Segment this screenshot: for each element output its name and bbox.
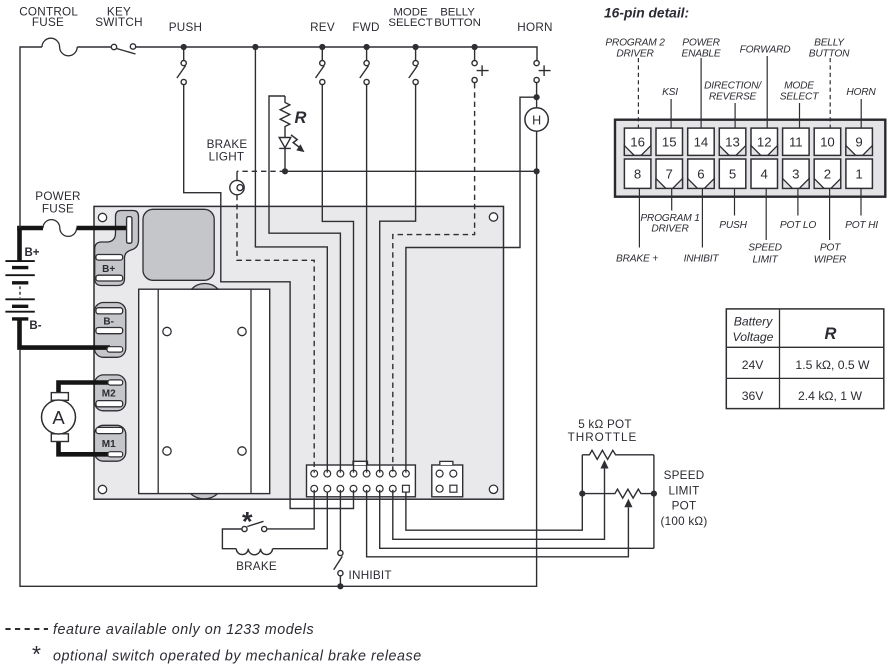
svg-text:BELLY: BELLY bbox=[814, 38, 845, 49]
pin 7 box bbox=[656, 159, 683, 188]
svg-text:INHIBIT: INHIBIT bbox=[684, 254, 720, 265]
svg-text:PUSH: PUSH bbox=[169, 21, 202, 34]
controller 1233 body bbox=[94, 206, 504, 499]
wire: brake switch to brake coil bbox=[222, 529, 242, 549]
svg-text:4: 4 bbox=[761, 167, 768, 182]
pin 5 box bbox=[719, 159, 746, 188]
svg-text:2.4 kΩ, 1 W: 2.4 kΩ, 1 W bbox=[798, 389, 862, 403]
svg-text:*: * bbox=[242, 507, 253, 537]
B+ stud slot over wire bbox=[127, 217, 132, 244]
connector pin labels (italic) bbox=[605, 38, 878, 266]
wire: pin 2 to throttle pot wiper bbox=[393, 468, 605, 539]
svg-text:M1: M1 bbox=[102, 439, 116, 450]
wire: belly button dashed to pin 10 bbox=[393, 83, 475, 473]
svg-text:POWER: POWER bbox=[35, 190, 80, 203]
B+ terminal boot bbox=[95, 211, 139, 286]
svg-text:B+: B+ bbox=[102, 264, 115, 275]
node: horn pin tap junction bbox=[534, 94, 540, 100]
pin square (1) bbox=[403, 485, 410, 492]
svg-text:LIMIT: LIMIT bbox=[752, 254, 778, 265]
svg-text:3: 3 bbox=[792, 167, 799, 182]
M2 terminal block bbox=[94, 375, 125, 411]
component letter labels bbox=[24, 109, 541, 450]
svg-text:POT HI: POT HI bbox=[845, 220, 878, 231]
speed wiper arrow bbox=[624, 499, 632, 508]
battery B1 bbox=[5, 261, 34, 319]
node: rev tap bbox=[319, 44, 325, 50]
16-pin board connector J1 bbox=[307, 465, 416, 497]
svg-text:REVERSE: REVERSE bbox=[709, 91, 757, 102]
node: push tap bbox=[181, 44, 187, 50]
svg-text:SPEED: SPEED bbox=[748, 243, 782, 254]
svg-text:12: 12 bbox=[757, 134, 772, 149]
svg-text:FWD: FWD bbox=[352, 21, 379, 34]
pin 11 box bbox=[783, 128, 810, 155]
node: pot right junction bbox=[651, 491, 657, 497]
svg-text:optional switch operated by me: optional switch operated by mechanical b… bbox=[53, 649, 422, 665]
svg-text:SPEED: SPEED bbox=[664, 469, 705, 482]
wire: power enable branch to pin 14 bbox=[269, 96, 340, 473]
svg-text:DRIVER: DRIVER bbox=[651, 224, 689, 235]
svg-text:ENABLE: ENABLE bbox=[681, 48, 720, 59]
legend dashed sample bbox=[5, 628, 48, 630]
svg-text:BUTTON: BUTTON bbox=[434, 17, 481, 29]
wire: pin 8 to brake microswitch bbox=[267, 490, 314, 529]
node: LED to common line junction bbox=[282, 168, 288, 174]
horn H1 bbox=[525, 108, 548, 131]
heatsink plate bbox=[139, 289, 270, 493]
wire: horn switch to node above horn bbox=[536, 83, 538, 108]
svg-text:H: H bbox=[532, 113, 541, 127]
brake release microswitch S8 bbox=[262, 526, 267, 531]
svg-text:BRAKE: BRAKE bbox=[207, 138, 248, 151]
svg-text:1.5 kΩ, 0.5 W: 1.5 kΩ, 0.5 W bbox=[795, 358, 870, 372]
pin 1 box bbox=[846, 159, 873, 188]
wire: power fuse to controller B+ stud bbox=[77, 226, 130, 231]
pin 10 box bbox=[814, 128, 841, 155]
capacitor block bbox=[143, 209, 214, 280]
svg-text:feature available only on 1233: feature available only on 1233 models bbox=[53, 622, 314, 638]
wire: key switch to top-right corner, horn branch corner bbox=[136, 47, 537, 60]
svg-text:B-: B- bbox=[103, 316, 114, 327]
plate hole 3 bbox=[163, 447, 171, 455]
leader: mode select to pin 11 bbox=[799, 103, 801, 128]
svg-text:13: 13 bbox=[725, 134, 740, 149]
leader: pot wiper to pin 2 bbox=[829, 189, 831, 240]
wire: LED cathode to switch-common node bbox=[284, 148, 286, 171]
wire: switch-common line dashed part to brake light bbox=[237, 170, 285, 172]
svg-text:10: 10 bbox=[820, 134, 835, 149]
pin 12 box bbox=[751, 128, 778, 155]
B- terminal block bbox=[94, 303, 125, 358]
leader: push to pin 5 bbox=[734, 189, 736, 216]
pin 16 box bbox=[624, 128, 651, 155]
svg-text:R: R bbox=[825, 325, 837, 343]
leader: pot lo to pin 3 bbox=[797, 189, 799, 216]
M1 wire end slot bbox=[108, 452, 123, 457]
svg-text:(100 kΩ): (100 kΩ) bbox=[660, 515, 707, 528]
svg-text:Battery: Battery bbox=[734, 314, 774, 328]
rev switch S3 bbox=[321, 47, 323, 61]
svg-text:LIGHT: LIGHT bbox=[209, 151, 245, 164]
leader: ksi to pin 15 bbox=[670, 99, 672, 128]
svg-text:LIMIT: LIMIT bbox=[668, 484, 699, 497]
wire: horn to junction with switch-common line bbox=[20, 131, 537, 586]
svg-text:*: * bbox=[32, 641, 41, 667]
plate hole 4 bbox=[238, 447, 246, 455]
svg-text:14: 14 bbox=[694, 134, 709, 149]
node: mode select tap bbox=[413, 44, 419, 50]
push switch S2 bbox=[183, 47, 185, 61]
svg-text:THROTTLE: THROTTLE bbox=[568, 431, 638, 444]
leader: pot hi to pin 1 bbox=[860, 189, 862, 216]
throttle wiper arrow bbox=[600, 460, 608, 469]
wire: pin 6 to inhibit switch bbox=[339, 490, 341, 551]
mode select switch S5 bbox=[415, 47, 417, 61]
key switch S1 bbox=[111, 44, 116, 49]
horn switch S7 bbox=[534, 61, 539, 66]
B- wire end slot bbox=[107, 347, 123, 352]
leader: program 1 driver to pin 7 bbox=[671, 189, 673, 211]
svg-text:FUSE: FUSE bbox=[32, 16, 64, 29]
svg-text:SELECT: SELECT bbox=[388, 17, 432, 29]
wire: motor to M1 bbox=[56, 441, 113, 454]
pin circles top row (16-9) bbox=[311, 470, 318, 477]
M1 terminal block bbox=[94, 425, 125, 461]
wire: switch-common line solid part bbox=[285, 170, 537, 172]
wire: horn tap to pin 9 bbox=[406, 97, 537, 472]
4-pin board connector J2 bbox=[432, 465, 463, 497]
svg-text:2: 2 bbox=[824, 167, 831, 182]
svg-text:11: 11 bbox=[789, 134, 803, 149]
pin 8 box bbox=[624, 159, 651, 188]
wire: push switch down and into controller bbox=[184, 85, 354, 509]
pin circles bottom row (8-2) bbox=[311, 485, 318, 492]
screw hole bottom-left bbox=[98, 485, 106, 493]
wire: pin 1 to pot left junction bbox=[406, 455, 582, 530]
svg-text:KSI: KSI bbox=[662, 87, 678, 98]
svg-text:5 kΩ POT: 5 kΩ POT bbox=[578, 418, 632, 431]
svg-text:WIPER: WIPER bbox=[814, 254, 847, 265]
pin 6 box bbox=[688, 159, 715, 188]
svg-text:1: 1 bbox=[855, 167, 862, 182]
B+ stud slot bbox=[127, 217, 132, 244]
svg-text:16: 16 bbox=[630, 134, 645, 149]
svg-text:8: 8 bbox=[634, 167, 641, 182]
leader: power enable to pin 14 bbox=[700, 58, 702, 128]
svg-text:BUTTON: BUTTON bbox=[809, 48, 850, 59]
pin 3 box bbox=[783, 159, 810, 188]
leader: program 2 driver to pin 16 (dashed) bbox=[637, 58, 639, 128]
wire: fwd switch to pin 12 bbox=[366, 85, 368, 473]
svg-text:36V: 36V bbox=[742, 389, 765, 403]
svg-text:BRAKE: BRAKE bbox=[236, 560, 277, 573]
svg-text:7: 7 bbox=[666, 167, 673, 182]
svg-text:16-pin detail:: 16-pin detail: bbox=[604, 6, 689, 21]
pin 14 box bbox=[688, 128, 715, 155]
heatsink bump top bbox=[191, 283, 218, 289]
svg-text:M2: M2 bbox=[102, 389, 116, 400]
B+ terminal slot upper bbox=[96, 255, 123, 261]
wire: battery negative to B- terminal bbox=[17, 319, 110, 348]
svg-text:REV: REV bbox=[310, 21, 335, 34]
svg-text:5: 5 bbox=[729, 167, 736, 182]
wire: brake light dashed to pin 16 bbox=[237, 195, 314, 473]
wire: top rail left segment B+ to control fuse bbox=[20, 47, 42, 228]
screw hole bottom-right bbox=[489, 485, 497, 493]
wire: mode select to pin 11 bbox=[380, 85, 416, 473]
pin 15 box bbox=[656, 128, 683, 155]
svg-text:PROGRAM 1: PROGRAM 1 bbox=[640, 213, 699, 224]
wire: pot right side vertical bbox=[653, 455, 655, 549]
svg-text:SELECT: SELECT bbox=[780, 91, 819, 102]
speed limit pot R3 100k bbox=[582, 489, 654, 498]
control fuse F1 bbox=[42, 38, 77, 56]
table text bbox=[733, 314, 871, 403]
motor M bbox=[42, 393, 76, 442]
svg-text:15: 15 bbox=[662, 134, 677, 149]
wire: ksi from rail to pin 15 bbox=[255, 47, 327, 473]
pin 13 box bbox=[719, 128, 746, 155]
pin 4 box bbox=[751, 159, 778, 188]
text labels main diagram bbox=[19, 5, 707, 582]
leader: belly button to pin 10 (dashed) bbox=[829, 58, 831, 128]
svg-text:B+: B+ bbox=[24, 247, 39, 259]
svg-text:POT: POT bbox=[820, 243, 841, 254]
wire: pin 4 to speed limit pot wiper bbox=[367, 490, 629, 557]
node: pot left junction bbox=[579, 491, 585, 497]
heatsink bump bottom bbox=[191, 494, 218, 499]
svg-text:B-: B- bbox=[29, 320, 41, 332]
wire: control fuse to key switch bbox=[77, 46, 111, 48]
svg-text:POT LO: POT LO bbox=[780, 220, 816, 231]
connector key tab bbox=[353, 461, 368, 465]
svg-text:DRIVER: DRIVER bbox=[616, 48, 654, 59]
pin 9 box bbox=[846, 128, 873, 155]
wire: pin 3 to pot right side bbox=[380, 490, 654, 548]
brake coil bbox=[236, 549, 272, 555]
wire: B+ thick feed to power fuse bbox=[17, 226, 43, 231]
svg-text:6: 6 bbox=[697, 167, 704, 182]
svg-text:24V: 24V bbox=[742, 358, 765, 372]
plate hole 2 bbox=[238, 327, 246, 335]
svg-text:PROGRAM 2: PROGRAM 2 bbox=[605, 38, 665, 49]
leader: direction/reverse to pin 13 bbox=[734, 103, 736, 128]
svg-text:BRAKE +: BRAKE + bbox=[616, 254, 658, 265]
wire: rev switch to pin 13 bbox=[322, 85, 353, 473]
svg-text:Voltage: Voltage bbox=[733, 330, 774, 344]
node: switch-common line meets horn return bbox=[534, 168, 540, 174]
brake light lamp L1 bbox=[236, 171, 238, 180]
wire: brake coil to pin 7 bbox=[273, 492, 328, 549]
battery voltage table bbox=[726, 309, 884, 409]
svg-text:POWER: POWER bbox=[682, 38, 720, 49]
svg-text:A: A bbox=[52, 407, 65, 428]
wire: B+ thick feed from rail corner to battery bbox=[17, 226, 22, 261]
svg-text:FUSE: FUSE bbox=[42, 202, 74, 215]
B+ terminal slot lower bbox=[96, 275, 123, 281]
wire: motor to M2 bbox=[56, 383, 113, 394]
screw hole top-right bbox=[489, 213, 497, 221]
fwd switch S4 bbox=[366, 47, 368, 61]
node: inhibit junction on bottom rail bbox=[337, 583, 343, 589]
16-pin detail connector shell bbox=[615, 120, 885, 197]
node: fwd tap bbox=[364, 44, 370, 50]
node: ksi tap bbox=[252, 44, 258, 50]
leader: brake + to pin 8 bbox=[638, 189, 640, 248]
LED D1 bbox=[279, 138, 291, 149]
svg-text:HORN: HORN bbox=[517, 21, 552, 34]
power fuse F2 bbox=[43, 220, 77, 237]
svg-text:R: R bbox=[295, 109, 307, 127]
node: belly button tap bbox=[472, 44, 478, 50]
svg-text:9: 9 bbox=[855, 134, 862, 149]
leader: speed limit to pin 4 bbox=[765, 189, 767, 240]
svg-text:FORWARD: FORWARD bbox=[740, 45, 792, 56]
inhibit switch S9 bbox=[338, 550, 343, 555]
leader: inhibit to pin 6 bbox=[701, 189, 703, 248]
heatsink inner lines bbox=[158, 289, 251, 493]
svg-text:MODE: MODE bbox=[784, 81, 814, 92]
resistor R bbox=[280, 96, 290, 137]
screw hole top-left bbox=[98, 213, 106, 221]
svg-text:INHIBIT: INHIBIT bbox=[349, 569, 392, 582]
M2 wire end slot bbox=[108, 380, 123, 385]
svg-text:DIRECTION/: DIRECTION/ bbox=[704, 81, 762, 92]
svg-text:HORN: HORN bbox=[846, 87, 876, 98]
svg-text:PUSH: PUSH bbox=[719, 220, 747, 231]
pin 2 box bbox=[814, 159, 841, 188]
belly button switch S6 bbox=[474, 47, 476, 61]
svg-text:SWITCH: SWITCH bbox=[95, 16, 143, 29]
wire: inhibit switch to bottom rail bbox=[339, 576, 341, 587]
throttle pot R2 5k bbox=[582, 450, 654, 459]
plate hole 1 bbox=[163, 327, 171, 335]
leader: horn to pin 9 bbox=[860, 99, 862, 128]
svg-text:POT: POT bbox=[672, 499, 697, 512]
leader: forward to pin 12 bbox=[766, 56, 768, 128]
